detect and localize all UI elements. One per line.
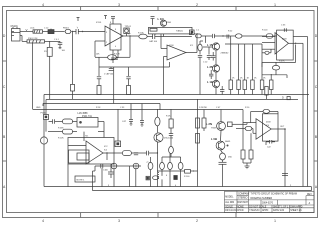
capacitor C108 <box>198 56 202 95</box>
network wire lower <box>99 57 170 103</box>
svg-text:L 2N: L 2N <box>206 122 212 126</box>
svg-text:L 1N: L 1N <box>158 17 164 21</box>
svg-text:C22: C22 <box>267 147 272 149</box>
svg-text:APPD: APPD <box>262 209 269 212</box>
svg-text:ALL DIM: ALL DIM <box>225 201 234 204</box>
U101 output wire <box>123 35 139 36</box>
U103 input rect <box>69 150 90 163</box>
Q105 down wire <box>156 142 158 187</box>
bus V+ <box>44 94 309 96</box>
transistor Q106 <box>217 122 226 131</box>
U102 input wires <box>262 37 275 50</box>
connector J1 <box>12 27 21 41</box>
resistor R112 <box>229 80 233 90</box>
label R103 <box>96 54 121 56</box>
resistor R123 on junction column <box>155 109 160 133</box>
svg-text:C 47: C 47 <box>216 107 221 109</box>
U101B output <box>186 33 198 52</box>
svg-text:2: 2 <box>106 42 107 44</box>
svg-text:TP101: TP101 <box>125 26 132 28</box>
svg-text:L1N 4558: L1N 4558 <box>78 113 89 115</box>
wire row2b <box>73 131 78 133</box>
U101 inverting input feedback <box>95 41 105 57</box>
resistor R135 vertical oval <box>148 157 153 187</box>
resistor R124 vertical oval <box>160 162 165 169</box>
resistor R121 <box>63 129 73 134</box>
wire Q stack <box>215 51 217 95</box>
capacitor C106 <box>207 56 211 61</box>
svg-text:DR 9.10.84: DR 9.10.84 <box>225 210 237 212</box>
svg-text:MODEL: MODEL <box>225 196 234 198</box>
op-amp U103 triangle <box>86 141 103 164</box>
svg-text:REV: REV <box>307 194 312 196</box>
svg-text:C100: C100 <box>103 169 109 171</box>
svg-text:2: 2 <box>196 219 198 223</box>
resistor R111 left column <box>198 41 203 55</box>
bottom row wire <box>157 170 184 172</box>
resistor R108 <box>235 34 242 38</box>
frame bottom wire 2 <box>93 187 312 191</box>
svg-text:1K: 1K <box>240 77 243 79</box>
svg-text:NOTE 1: NOTE 1 <box>77 180 86 182</box>
resistor R105 <box>97 86 101 95</box>
svg-text:COMPANY: COMPANY <box>238 193 250 196</box>
wire Q106 to U104 <box>232 123 247 125</box>
svg-text:R 22: R 22 <box>228 31 233 33</box>
U103 box leg <box>67 164 69 187</box>
wire Q102 row <box>203 47 212 55</box>
U102 input resistor R136 <box>262 49 271 54</box>
svg-text:1: 1 <box>274 219 276 223</box>
transistor Q105 <box>154 133 163 142</box>
resistor R129 vertical oval <box>169 146 174 157</box>
svg-text:3: 3 <box>106 32 107 34</box>
comb riser wires <box>225 36 262 80</box>
svg-text:A: A <box>3 185 6 189</box>
oval drops <box>162 170 181 187</box>
capacitor C112 <box>109 67 114 70</box>
resistor R116 <box>260 80 264 90</box>
Q101 stage box <box>149 27 193 36</box>
svg-text:100: 100 <box>62 50 66 52</box>
resistor R130 <box>236 126 256 133</box>
U104 below cap C132 <box>266 140 275 145</box>
resistor R120 <box>63 119 73 124</box>
wire <box>242 35 266 37</box>
svg-text:4558: 4558 <box>166 22 172 24</box>
test point TP1 <box>124 28 129 36</box>
capacitor C101 polarized <box>48 29 54 34</box>
node box stage2 out <box>190 30 195 35</box>
wire row2 <box>48 131 63 133</box>
bus mid <box>43 104 160 111</box>
resistor R114 <box>243 80 247 90</box>
svg-text:SCALE: SCALE <box>225 206 233 209</box>
title block text <box>225 193 312 213</box>
svg-text:R 100: R 100 <box>262 30 268 32</box>
svg-text:2SD: 2SD <box>228 156 232 158</box>
ferrite bead FB1 <box>65 29 71 33</box>
frame bottom wire <box>44 186 312 188</box>
wire <box>54 31 65 33</box>
wire D101 to U103 <box>103 132 105 138</box>
bus GND <box>46 99 298 101</box>
wire to junction <box>149 152 158 153</box>
svg-text:IC1: IC1 <box>190 45 194 47</box>
wire <box>231 35 236 37</box>
svg-text:4: 4 <box>42 3 44 7</box>
resistor R133 <box>249 133 253 163</box>
svg-text:T.SUZUKI: T.SUZUKI <box>249 210 260 212</box>
op-amp U101 IC box <box>110 24 121 50</box>
electrolytic C130 <box>220 153 226 162</box>
label 4558 U104 <box>266 122 271 128</box>
label L1N 4558 D101 <box>78 113 93 118</box>
capacitor C136 filled <box>174 176 178 180</box>
bus left drops <box>43 95 46 115</box>
svg-text:10K: 10K <box>96 54 100 56</box>
svg-text:1 CAP 100: 1 CAP 100 <box>104 72 113 75</box>
capacitor C129 <box>169 134 173 147</box>
transistor Q103 <box>212 65 219 72</box>
svg-text:CHKD: CHKD <box>237 210 244 212</box>
svg-text:SHEET 1 OF 1: SHEET 1 OF 1 <box>273 207 289 209</box>
resistor R138 <box>196 118 200 128</box>
U103 bottom cap C125 <box>108 164 114 178</box>
resistor R137 <box>196 34 202 38</box>
svg-text:P101: P101 <box>41 112 47 114</box>
capacitor C120 <box>49 119 63 124</box>
capacitor C122 to gnd <box>140 104 144 127</box>
transistor Q107 <box>216 141 225 150</box>
U104 feedback loop <box>251 112 278 123</box>
svg-text:TP: TP <box>128 34 131 36</box>
svg-text:L 1B: L 1B <box>207 80 213 84</box>
svg-text:8: 8 <box>115 29 116 31</box>
svg-text:D: D <box>282 97 284 100</box>
svg-text:DO NOT SCALE: DO NOT SCALE <box>249 206 267 209</box>
op-amp U104 triangle <box>256 119 271 140</box>
relay contact P4B <box>150 28 157 31</box>
svg-text:GND: GND <box>36 107 41 109</box>
svg-text:DRAWING NUMBER: DRAWING NUMBER <box>251 197 273 200</box>
U104 output <box>271 128 286 187</box>
resistor R122 <box>122 151 131 156</box>
wire with junction <box>214 35 230 36</box>
Q101 top cap to rail <box>151 17 155 25</box>
wire input bottom <box>20 36 27 42</box>
svg-text:1K: 1K <box>232 77 235 79</box>
svg-text:3: 3 <box>118 219 120 223</box>
U102 output <box>289 43 304 187</box>
wire divider down to bus2 <box>32 43 34 109</box>
capacitor C110 <box>220 86 224 95</box>
svg-text:V: V <box>26 28 28 32</box>
svg-text:7558: 7558 <box>211 128 217 130</box>
op-amp U101B triangle <box>167 45 186 60</box>
electrolytic C127 <box>111 163 117 169</box>
electrolytic C123 <box>40 120 47 187</box>
resistor R125 vertical oval <box>168 162 173 169</box>
resistor R127 <box>185 170 191 174</box>
wire <box>43 31 49 33</box>
Q stack wires <box>221 110 223 154</box>
resistor R102 <box>47 47 52 56</box>
capacitor C133 <box>134 153 138 155</box>
U101B plus input <box>164 57 168 95</box>
component value labels scattered <box>28 22 292 187</box>
svg-text:D: D <box>3 34 6 38</box>
svg-text:TYPE770 CIRCUIT SCHEMATIC OF P: TYPE770 CIRCUIT SCHEMATIC OF PREAM <box>251 193 297 196</box>
wire <box>45 41 61 47</box>
wire R102 down to bus <box>49 56 51 99</box>
capacitor C131 <box>219 162 227 186</box>
svg-text:IC2: IC2 <box>104 149 108 151</box>
svg-text:L 3N: L 3N <box>207 65 213 69</box>
U101B input wire <box>161 34 167 49</box>
svg-text:0364-0370: 0364-0370 <box>262 203 274 205</box>
capacitor C105 <box>212 34 214 38</box>
svg-text:C47: C47 <box>122 121 127 123</box>
ref box D101 <box>77 118 98 128</box>
wire stub left <box>93 171 96 191</box>
U103 output wire <box>103 152 122 160</box>
resistor R106 <box>127 86 131 95</box>
svg-text:C 33: C 33 <box>281 25 286 27</box>
node box NM <box>115 141 121 147</box>
svg-text:R 56K: R 56K <box>58 127 64 129</box>
resistor R113 <box>237 80 241 90</box>
svg-text:CAP 100: CAP 100 <box>149 40 158 43</box>
op-amp U102 IC box <box>277 30 294 60</box>
svg-text:STEREO: STEREO <box>238 198 248 200</box>
row drops to frame <box>95 166 136 187</box>
svg-text:2: 2 <box>196 3 198 7</box>
wire <box>71 31 76 33</box>
capacitor C121 to gnd <box>129 104 133 126</box>
svg-text:4: 4 <box>42 219 44 223</box>
wire bus to NM <box>117 109 119 141</box>
svg-text:R 100: R 100 <box>184 176 190 178</box>
svg-text:C 33: C 33 <box>120 107 125 109</box>
capacitor C104 <box>153 34 155 39</box>
dashed marks <box>158 172 160 180</box>
resistor R118 <box>265 87 268 100</box>
svg-text:SHEET 1/1: SHEET 1/1 <box>290 210 302 212</box>
svg-text:IC2: IC2 <box>104 146 108 148</box>
svg-text:CN101: CN101 <box>11 26 19 28</box>
svg-text:IC4: IC4 <box>266 125 270 127</box>
U103 input wires <box>68 132 86 146</box>
wire to U1 <box>78 31 105 32</box>
long vertical mid <box>197 99 199 187</box>
bus low to U104 drop <box>243 110 256 151</box>
svg-text:1: 1 <box>274 3 276 7</box>
resistor R109 rounded <box>266 34 272 38</box>
node box Q106 <box>228 122 233 127</box>
wire box right <box>98 122 104 132</box>
svg-text:C 1: C 1 <box>196 30 200 32</box>
box small bottom <box>146 176 149 180</box>
label box bottom <box>75 176 95 182</box>
svg-text:L 1N: L 1N <box>207 43 213 47</box>
op-amp U102 triangle <box>275 33 289 54</box>
capacitor C135 <box>227 35 229 39</box>
svg-text:B: B <box>315 135 317 139</box>
svg-text:C 10: C 10 <box>203 62 208 64</box>
comb bottom wires <box>231 90 262 95</box>
bus low <box>33 109 244 111</box>
wire <box>147 36 152 38</box>
transistor Q101 <box>160 20 166 26</box>
svg-text:DWN APPD: DWN APPD <box>290 206 303 209</box>
resistor R104 <box>139 34 147 39</box>
capacitor C134 <box>282 174 288 176</box>
svg-text:L101: L101 <box>30 28 35 30</box>
resistor R107 <box>71 84 75 99</box>
resistor R140 <box>196 134 200 144</box>
svg-text:74B(1): 74B(1) <box>176 30 183 32</box>
svg-text:2SC1000: 2SC1000 <box>164 138 174 140</box>
resistor R134 oval <box>153 176 159 180</box>
node box NL <box>44 115 49 132</box>
svg-text:4558: 4558 <box>266 122 271 124</box>
svg-text:R 1K: R 1K <box>166 115 171 117</box>
capacitor C126 <box>101 164 103 169</box>
svg-text:B: B <box>3 135 5 139</box>
resistor R101 <box>27 40 45 43</box>
svg-text:C 0.1: C 0.1 <box>54 39 60 41</box>
feedback resistor R131 <box>263 109 270 113</box>
U102 lower feedback <box>262 45 296 68</box>
svg-text:0: 0 <box>166 175 168 177</box>
svg-text:P: P <box>155 34 157 36</box>
wire input top <box>20 31 33 33</box>
svg-text:4: 4 <box>115 46 116 48</box>
svg-text:IC101: IC101 <box>96 22 102 24</box>
svg-text:R 10K: R 10K <box>58 137 64 139</box>
resistor R119 <box>272 62 279 74</box>
wire row1 <box>73 121 78 123</box>
resistor R139 <box>202 110 206 132</box>
ovals top wires <box>162 153 181 162</box>
svg-text:1K: 1K <box>247 77 250 79</box>
svg-text:DATE 9.84: DATE 9.84 <box>273 209 285 212</box>
svg-text:DIM INCH: DIM INCH <box>238 202 249 204</box>
label L0B <box>211 137 231 143</box>
op-amp U101 triangle <box>105 26 123 46</box>
resistor R126 vertical oval <box>178 162 183 169</box>
resistor R117 <box>270 74 274 95</box>
ground G1 <box>243 163 251 169</box>
label L1N 4558 <box>158 17 172 24</box>
svg-text:NONE: NONE <box>237 207 244 209</box>
label L2N 4558 <box>206 122 217 129</box>
U102 feedback cap C111 <box>284 28 286 32</box>
transistor Q102 <box>212 43 219 50</box>
resistor R115 <box>251 80 255 90</box>
wire to right rail <box>273 36 308 187</box>
svg-text:4558: 4558 <box>282 39 287 41</box>
Q107 node dot <box>227 145 229 147</box>
capacitor C102 <box>76 27 78 34</box>
svg-text:3: 3 <box>118 3 120 7</box>
svg-text:OUT: OUT <box>280 126 285 128</box>
resistor R132 <box>241 150 245 163</box>
wire Q102 base drop <box>201 36 212 43</box>
svg-text:8: 8 <box>110 22 112 24</box>
transistor Q104 <box>212 80 219 87</box>
column R128 <box>169 109 173 134</box>
svg-text:P101 741: P101 741 <box>82 116 93 118</box>
op-amp U104 IC box <box>262 114 278 141</box>
U101 bottom pins <box>111 50 118 63</box>
capacitor C103 <box>58 41 63 48</box>
electrolytic C128 <box>133 163 139 169</box>
svg-text:1K: 1K <box>254 77 257 79</box>
title block <box>224 191 314 212</box>
inductor L1 <box>33 30 43 33</box>
svg-text:1K: 1K <box>263 77 266 79</box>
svg-text:C: C <box>3 85 6 89</box>
wire R127 right <box>190 170 197 171</box>
svg-text:R 10: R 10 <box>245 107 250 109</box>
U101 power stub cap <box>104 16 115 25</box>
wire lower2 <box>262 75 287 78</box>
svg-text:R 4.7K: R 4.7K <box>114 54 121 56</box>
test pad mark <box>77 17 80 21</box>
U101 pin labels <box>106 29 116 48</box>
wire stage2 to right <box>194 33 196 35</box>
feedback resistor R103 <box>95 36 130 60</box>
svg-text:L 0B: L 0B <box>211 137 217 141</box>
wire to Q101 stage <box>155 36 192 38</box>
capacitor C114 <box>126 77 130 86</box>
svg-text:SH01: SH01 <box>225 141 231 143</box>
wire C102 branch down <box>72 31 73 85</box>
svg-text:1.2K/1W: 1.2K/1W <box>199 107 207 109</box>
wire <box>131 152 146 154</box>
svg-text:2SB562: 2SB562 <box>221 53 230 55</box>
node box bus end <box>287 97 290 100</box>
capacitor C109 <box>209 70 213 79</box>
capacitor C113 <box>97 77 101 86</box>
below-U103 row wire <box>95 165 141 167</box>
capacitor C107 <box>211 52 215 61</box>
capacitor C124 <box>147 151 149 156</box>
op-amp U103 IC box <box>68 138 114 165</box>
svg-text:R 1K: R 1K <box>96 107 101 109</box>
